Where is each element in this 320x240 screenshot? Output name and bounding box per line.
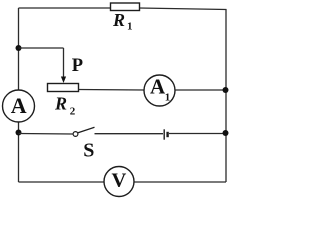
voltmeter V (104, 167, 134, 197)
wire wiper branch horizontal (19, 47, 64, 49)
switch S pivot (73, 132, 78, 137)
node junction left-top (16, 45, 22, 51)
wire switch to battery (95, 133, 164, 135)
wiper arrow P (61, 77, 66, 84)
node junction right-A1 (223, 87, 229, 93)
svg-text:R: R (54, 94, 67, 114)
svg-text:S: S (83, 140, 94, 162)
ammeter A1 (144, 75, 175, 106)
wire left vertical (18, 8, 20, 182)
svg-text:V: V (112, 170, 127, 192)
wire top (left of R1) (19, 7, 112, 9)
battery short plate (166, 132, 168, 137)
battery long plate (163, 129, 165, 139)
wire wiper branch vertical (63, 48, 65, 78)
node junction left-bottom (16, 130, 22, 136)
svg-text:R: R (112, 10, 125, 30)
wire A1 to right (175, 89, 226, 91)
rheostat R2 (48, 84, 79, 92)
wire top (right of R1) (139, 8, 227, 10)
svg-text:A: A (11, 93, 27, 118)
wire to switch (19, 133, 73, 136)
svg-text:1: 1 (165, 92, 171, 104)
resistor R1 (111, 3, 140, 11)
wire bottom (19, 181, 227, 183)
wire R2 to A1 (79, 89, 145, 92)
node junction right-battery (223, 130, 229, 136)
svg-text:A: A (150, 74, 166, 98)
wire battery to right (169, 133, 226, 135)
ammeter A (3, 90, 35, 122)
svg-text:2: 2 (70, 106, 76, 118)
svg-text:1: 1 (127, 21, 133, 33)
wire right vertical (225, 9, 227, 182)
switch S blade (78, 127, 95, 133)
svg-text:P: P (72, 56, 83, 76)
